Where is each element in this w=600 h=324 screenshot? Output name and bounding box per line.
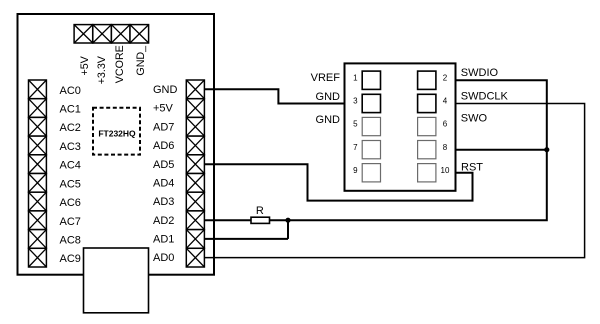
pin label AD7 [153,121,174,133]
svg-text:AD4: AD4 [153,177,174,189]
svg-text:3: 3 [353,97,358,106]
wire SWDIO net: junction to connector pin 2 [288,80,547,220]
pin label AD5 [153,159,174,171]
net label GND (pin 5) [316,114,341,126]
svg-text:5: 5 [353,120,358,129]
svg-text:AC7: AC7 [60,216,81,228]
net label GND (pin 3) [316,91,341,103]
wire junction down to AD1 wire [287,220,289,239]
svg-text:AC0: AC0 [60,85,81,97]
svg-text:AC5: AC5 [60,178,81,190]
pin label AD3 [153,196,174,208]
pin label AD0 [153,252,174,264]
pin label +3.3V (rotated) [96,55,108,84]
pin label AC6 [60,197,81,209]
pin label AC4 [60,160,81,172]
svg-text:AD1: AD1 [153,234,174,246]
pin label AD2 [153,215,174,227]
connector pin pads right column (2,4,6,8,10) [418,71,436,182]
svg-text:AD5: AD5 [153,159,174,171]
chip FT232HQ (dashed outline) [93,108,140,155]
svg-text:AD3: AD3 [153,196,174,208]
connector pin pads left column (1,3,5,7,9) [362,71,380,182]
junction node (R / AD1 / SWDIO) [285,218,290,223]
wire AD2 to resistor R left terminal [204,219,251,221]
pin label AC1 [60,104,81,116]
pin label AC3 [60,141,81,153]
svg-text:VREF: VREF [311,72,341,84]
top header J3 pins (+5V +3.3V VCORE GND_) [74,25,149,43]
USB connector [84,248,149,313]
resistor R [251,217,270,223]
wire GND net: board GND pin to connector pin 3 [204,89,358,103]
svg-text:1: 1 [353,73,358,82]
svg-text:SWO: SWO [461,112,488,124]
svg-text:4: 4 [443,97,448,106]
pin label VCORE (rotated) [114,45,126,83]
svg-text:AC2: AC2 [60,122,81,134]
pin number 2 [443,73,448,82]
wire AD1 net: board AD1 pin to junction [204,238,288,240]
svg-text:+5V: +5V [153,103,174,115]
wire AD0 net: connector pin 4 (SWDCLK) to board AD0 pin [204,104,584,258]
pin label GND_ (rotated) [135,45,147,76]
pin number 5 [353,120,358,129]
svg-text:SWDIO: SWDIO [461,67,499,79]
pin number 4 [443,97,448,106]
pin label GND [153,84,178,96]
pin number 8 [443,143,448,152]
svg-text:+3.3V: +3.3V [96,55,108,84]
svg-text:7: 7 [353,143,358,152]
svg-text:AD0: AD0 [153,252,174,264]
svg-text:VCORE: VCORE [114,45,126,83]
svg-text:AC3: AC3 [60,141,81,153]
wire AD5 net: board AD5 pin to connector pin 10 (RST) [204,164,472,200]
pin label AD4 [153,177,174,189]
pin label AC9 [60,253,81,265]
debug connector J1 outline [345,63,456,190]
net label SWDIO [461,67,499,79]
net label SWDCLK [461,90,509,102]
junction node pin8/SWDIO [544,147,549,152]
svg-text:AD2: AD2 [153,215,174,227]
svg-text:FT232HQ: FT232HQ [98,128,136,138]
svg-text:RST: RST [461,162,483,174]
svg-text:8: 8 [443,143,448,152]
svg-text:9: 9 [353,166,358,175]
svg-text:GND: GND [316,114,341,126]
pin number 7 [353,143,358,152]
wire resistor R right terminal to junction [270,219,289,221]
svg-text:AC9: AC9 [60,253,81,265]
pin number 3 [353,97,358,106]
pin label AC8 [60,234,81,246]
net label VREF [311,72,341,84]
svg-text:6: 6 [443,120,448,129]
pin number 1 [353,73,358,82]
pin number 9 [353,166,358,175]
left pin header AC0-AC9 [29,80,47,267]
pin number 6 [443,120,448,129]
svg-text:SWDCLK: SWDCLK [461,90,509,102]
pin label +5V [153,103,174,115]
FT232H breakout board outline U1 [18,14,215,275]
svg-text:2: 2 [443,73,448,82]
svg-text:GND_: GND_ [135,45,147,76]
svg-text:10: 10 [441,166,450,175]
svg-text:AD7: AD7 [153,121,174,133]
svg-text:GND: GND [316,91,341,103]
svg-text:AD6: AD6 [153,140,174,152]
right pin header GND +5V AD7-AD0 [186,80,204,267]
svg-text:AC4: AC4 [60,160,81,172]
net label SWO [461,112,488,124]
label R [256,205,264,217]
svg-text:AC8: AC8 [60,234,81,246]
pin number 10 [441,166,450,175]
pin label AC7 [60,216,81,228]
pin label AC5 [60,178,81,190]
svg-text:+5V: +5V [79,55,91,75]
wire connector pin 8 to SWDIO vertical [456,149,547,151]
net label RST [461,162,483,174]
svg-text:AC1: AC1 [60,104,81,116]
pin label AD1 [153,234,174,246]
svg-text:R: R [256,205,264,217]
svg-text:AC6: AC6 [60,197,81,209]
pin label AC0 [60,85,81,97]
pin label +5V (rotated) [79,55,91,75]
pin label AD6 [153,140,174,152]
pin label AC2 [60,122,81,134]
svg-text:GND: GND [153,84,178,96]
